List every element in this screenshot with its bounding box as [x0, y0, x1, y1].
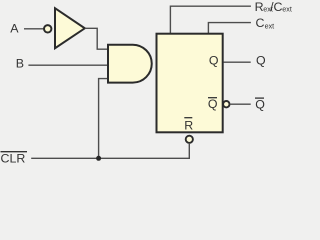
inverter input bubble — [44, 25, 51, 32]
wire A to inverter bubble — [24, 28, 44, 30]
wire Qbar output — [230, 103, 251, 105]
label Rext/Cext — [255, 0, 292, 14]
output label Qbar — [255, 97, 265, 111]
label Cext — [256, 16, 275, 30]
wire B to AND middle input — [28, 64, 107, 66]
Qbar output bubble — [223, 101, 229, 107]
svg-text:ext: ext — [282, 5, 292, 14]
svg-text:A: A — [10, 21, 19, 35]
svg-text:R: R — [184, 118, 193, 132]
svg-text:/C: /C — [270, 0, 282, 14]
svg-text:ext: ext — [265, 22, 275, 31]
svg-text:Q: Q — [208, 97, 218, 111]
pin label Qbar (inside) — [208, 97, 218, 111]
wire inverter output to AND top input — [85, 28, 108, 49]
inverter gate triangle — [55, 8, 85, 48]
svg-text:Q: Q — [255, 97, 265, 111]
wire Q output — [224, 61, 251, 63]
input label CLRbar — [1, 151, 28, 165]
wire top pin to Cext — [208, 23, 251, 34]
svg-text:C: C — [256, 16, 265, 30]
svg-text:R: R — [255, 0, 264, 14]
Rbar pin bubble — [186, 136, 193, 143]
svg-text:Q: Q — [256, 54, 266, 68]
svg-text:B: B — [16, 56, 24, 70]
AND gate — [108, 45, 152, 83]
junction dot CLR node — [96, 156, 101, 161]
wire CLR branch to AND bottom input — [99, 79, 108, 159]
pin label Rbar (inside bottom) — [184, 118, 193, 133]
svg-text:CLR: CLR — [1, 151, 26, 163]
wire top pin to Rext/Cext — [170, 6, 251, 34]
flip-flop block — [157, 34, 223, 133]
svg-text:Q: Q — [209, 54, 219, 68]
wire CLR to Rbar bubble — [31, 144, 189, 158]
